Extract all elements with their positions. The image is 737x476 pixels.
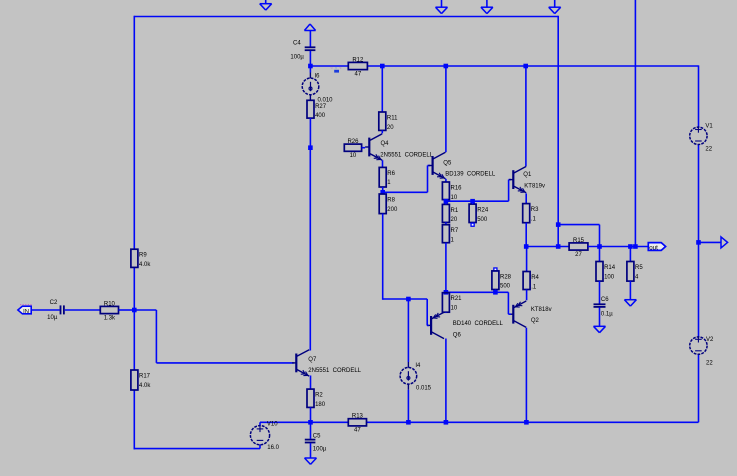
wire Q7 emitter stub [310, 376, 312, 390]
svg-text:R7: R7 [451, 228, 459, 234]
svg-text:out: out [649, 245, 658, 252]
node Q5 collector node [444, 64, 449, 69]
voltage source V10 16.0 [250, 421, 279, 451]
svg-text:R14: R14 [604, 265, 616, 271]
svg-text:R10: R10 [104, 301, 116, 307]
wire x558 drop [557, 16, 559, 247]
svg-text:2N5551 CORDELL: 2N5551 CORDELL [380, 153, 433, 159]
wire out line right [588, 246, 649, 248]
wire Q7 base wire [156, 362, 293, 364]
wire Q5 base wire [383, 191, 428, 193]
node R21 top node [444, 290, 449, 295]
wire x635 drop [634, 0, 636, 247]
wire R11 to Q4 collector [381, 130, 383, 133]
ground C5 [305, 458, 317, 464]
svg-text:10µ: 10µ [47, 315, 58, 321]
wire R26 to Q4 base [362, 147, 366, 149]
svg-text:4.0k: 4.0k [139, 383, 151, 389]
svg-text:R1: R1 [451, 208, 459, 214]
resistor R15 27 [569, 238, 588, 258]
wire lower rail right [367, 421, 699, 423]
svg-text:500: 500 [477, 217, 488, 223]
wire R6 to R8 [382, 187, 384, 194]
wire R17 to bottom corner [133, 390, 135, 449]
svg-text:0.010: 0.010 [318, 98, 334, 104]
wire node to I6 [309, 66, 311, 73]
resistor R24 500 [469, 204, 489, 223]
wire VCC to C4 [309, 31, 311, 47]
svg-text:0.1µ: 0.1µ [601, 311, 613, 317]
transistor Q2 [509, 301, 551, 327]
wire R1-R7 stub [445, 222, 447, 224]
svg-text:V10: V10 [267, 421, 278, 427]
wire C5 top stub [310, 422, 312, 439]
svg-text:22: 22 [705, 147, 712, 153]
wire R14 top stub [599, 247, 601, 262]
svg-text:R3: R3 [531, 207, 539, 213]
wire Q5 base lead [428, 165, 431, 167]
svg-text:Q4: Q4 [381, 141, 390, 147]
svg-text:R6: R6 [387, 171, 395, 177]
wire R21 top wire [446, 291, 496, 293]
wire R5 to ground [629, 281, 631, 300]
node R3/R4 out node [524, 244, 529, 249]
svg-text:500: 500 [500, 284, 511, 290]
node Q2 collector bottom node [524, 420, 529, 425]
wire C6 to ground [599, 308, 601, 327]
node x635 bottom node [633, 244, 638, 249]
wire C4 to node [309, 51, 311, 66]
wire out line left [526, 246, 569, 248]
svg-text:I6: I6 [315, 74, 321, 80]
svg-text:V2: V2 [706, 337, 714, 343]
probe marks near R12 [331, 66, 342, 73]
svg-text:BD140 CORDELL: BD140 CORDELL [453, 321, 504, 327]
wire bypass loop drop [599, 225, 601, 247]
svg-text:R15: R15 [573, 238, 585, 244]
svg-text:C6: C6 [601, 297, 609, 303]
resistor R27 400 [307, 100, 327, 119]
resistor R28 500 [492, 271, 512, 290]
wire rail y66 right [367, 65, 698, 67]
resistor R9 4.0k [131, 249, 151, 268]
node Q6 collector bottom node [444, 420, 449, 425]
wire R11 top stub [381, 66, 383, 112]
wire rail y66 left [310, 65, 348, 67]
svg-text:Q5: Q5 [443, 160, 452, 166]
wire R3 to out node [525, 223, 527, 247]
resistor R3 .1 [523, 204, 539, 223]
node I4 top node [406, 297, 411, 302]
node C4/I6/R12 node [308, 64, 313, 69]
svg-text:V1: V1 [705, 124, 713, 130]
svg-text:R11: R11 [387, 116, 398, 122]
ground C6 [594, 326, 606, 332]
wire left border to R17 [133, 310, 135, 370]
resistor R1 20 [442, 204, 458, 223]
resistor R7 1 [442, 225, 458, 244]
resistor R6 1 [379, 167, 395, 187]
svg-text:47: 47 [354, 428, 361, 434]
resistor R5 4 [627, 262, 643, 282]
node R28/Q2-base node [493, 290, 498, 295]
capacitor C2 10µ [47, 300, 64, 321]
capacitor C4 100µ [290, 40, 315, 60]
node V1-V2 mid node [696, 240, 701, 245]
wire Q2 collector riser [525, 328, 527, 423]
svg-text:Q1: Q1 [523, 172, 532, 178]
resistor R8 200 [379, 194, 398, 214]
port tag IN [18, 305, 32, 315]
svg-text:47: 47 [355, 71, 362, 77]
node input node [132, 308, 137, 313]
wire R16 node to Q1 base [446, 200, 509, 202]
node I4 bottom node [406, 420, 411, 425]
svg-text:R12: R12 [352, 57, 364, 63]
wire R7 down to R21 [445, 243, 447, 293]
wire R24 top stub [472, 201, 474, 204]
svg-text:R5: R5 [635, 265, 643, 271]
wire R10 to node [119, 309, 135, 311]
wire Q1 base lead [509, 179, 511, 181]
ground top 3 [481, 0, 493, 14]
wire R1 top stub [445, 201, 447, 204]
wire right riser V1-top [698, 65, 700, 127]
wire Q4 emitter stub [382, 160, 384, 167]
wire Q6 collector riser [445, 339, 447, 423]
I6 bottom lead [309, 95, 311, 101]
resistor R2 180 [307, 389, 326, 408]
wire I4 riser [407, 299, 409, 362]
svg-text:BD139 CORDELL: BD139 CORDELL [445, 171, 496, 177]
terminal pin R24 [470, 223, 474, 227]
svg-text:Q7: Q7 [308, 357, 317, 363]
port arrow right [721, 237, 728, 248]
node R14 top node [597, 244, 602, 249]
wire left border lower [133, 267, 135, 310]
svg-text:10: 10 [350, 153, 357, 159]
svg-text:C2: C2 [50, 300, 58, 306]
wire R8 corner to I4 node [383, 298, 409, 300]
wire left border [133, 16, 135, 250]
node R26 branch node [308, 145, 313, 150]
transistor Q5 [428, 152, 495, 178]
resistor R16 10 [442, 182, 462, 201]
svg-text:R9: R9 [139, 253, 147, 259]
wire Q6 base drop [426, 299, 428, 325]
svg-text:100µ: 100µ [290, 54, 304, 60]
svg-text:R4: R4 [531, 275, 539, 281]
wire R27 to Q7-collector node [309, 118, 311, 148]
svg-text:20: 20 [451, 217, 458, 223]
wire Q2 base drop [507, 292, 509, 314]
wire R5 top stub [629, 247, 631, 262]
ground top 2 [436, 0, 448, 14]
ground top 4 [549, 0, 561, 14]
svg-text:C4: C4 [293, 40, 301, 46]
wire port stub [699, 241, 722, 243]
svg-text:2N5551 CORDELL: 2N5551 CORDELL [308, 368, 361, 374]
node bypass loop top-left [556, 222, 561, 227]
svg-text:R26: R26 [347, 139, 359, 145]
wire Q1 collector riser [525, 66, 527, 166]
wire V10 top stub [259, 422, 261, 425]
svg-text:0.015: 0.015 [416, 386, 432, 392]
svg-text:10: 10 [451, 195, 458, 201]
node Q1 collector node [523, 64, 528, 69]
node R11 top node [380, 64, 385, 69]
wire Q2 base wire [495, 291, 508, 293]
node x558 out node [556, 244, 561, 249]
wire Q5 collector riser [445, 66, 447, 152]
resistor R21 10 [442, 293, 462, 313]
wire Q5 emitter stub [445, 179, 447, 182]
node R2/C5/V10 node [308, 420, 313, 425]
port tag out [648, 243, 665, 252]
svg-text:R16: R16 [451, 186, 463, 192]
wire IN to C2 [31, 309, 59, 311]
wire R4 top stub [526, 247, 528, 272]
node R24 top node [470, 199, 475, 204]
svg-text:27: 27 [575, 252, 582, 258]
I4 top lead [407, 362, 409, 368]
resistor R12 47 [348, 57, 367, 77]
svg-text:4.0k: 4.0k [139, 262, 151, 268]
wire right riser V1-V2 [698, 145, 700, 337]
svg-text:R28: R28 [500, 274, 512, 280]
wire Q6 base wire [408, 298, 427, 300]
svg-text:180: 180 [315, 402, 326, 408]
svg-text:20: 20 [387, 125, 394, 131]
ground R5 [624, 300, 636, 306]
I4 bottom lead [407, 384, 409, 390]
svg-text:1.3k: 1.3k [104, 315, 116, 321]
I6 top lead [309, 73, 311, 79]
resistor R11 20 [379, 112, 398, 131]
svg-text:.1: .1 [531, 216, 537, 222]
current source I6 0.010 [302, 74, 333, 104]
node R6/R8 node [380, 190, 385, 195]
current source I4 0.015 [400, 363, 432, 392]
wire R16 to node [445, 200, 447, 202]
voltage source V1 22 [690, 124, 714, 153]
resistor R10 1.3k [100, 301, 118, 321]
wire top rail [134, 16, 558, 18]
svg-text:R21: R21 [451, 296, 463, 302]
wire Q1 emitter stub [525, 193, 527, 203]
svg-text:100µ: 100µ [313, 447, 327, 453]
wire node to Q7 branch [134, 309, 156, 311]
wire bypass loop top [558, 224, 599, 226]
terminal pin R28 [493, 267, 497, 271]
capacitor C5 100µ [305, 433, 327, 452]
svg-text:IN: IN [23, 309, 29, 315]
resistor R4 .1 [523, 272, 539, 291]
ground top 1 [260, 0, 272, 10]
svg-text:22: 22 [706, 360, 713, 366]
resistor R17 4.0k [131, 370, 151, 390]
wire R28 bottom stub [494, 290, 496, 293]
wire I4 bottom stub [407, 390, 409, 423]
node R16/R1 node [444, 199, 449, 204]
svg-text:Q2: Q2 [531, 318, 540, 324]
wire bottom-left rail [134, 448, 261, 450]
transistor Q4 [365, 134, 434, 160]
svg-text:16.0: 16.0 [267, 445, 279, 451]
transistor Q1 [509, 166, 545, 192]
node R5 top node [628, 244, 633, 249]
svg-text:R27: R27 [315, 104, 327, 110]
svg-text:400: 400 [315, 113, 326, 119]
wire R8 down long [382, 214, 384, 300]
wire C2 to R10 [65, 309, 101, 311]
wire R14 to C6 [599, 281, 601, 303]
svg-text:200: 200 [387, 207, 398, 213]
wire Q6 base lead [427, 324, 429, 326]
transistor Q6 [427, 312, 504, 338]
wire right riser V2-bottom [698, 355, 700, 423]
svg-text:R2: R2 [315, 393, 323, 399]
wire Q7 collector riser [309, 148, 311, 351]
capacitor C6 0.1µ [594, 297, 614, 317]
svg-text:KT819v: KT819v [524, 184, 545, 190]
svg-text:Q6: Q6 [453, 333, 462, 339]
wire Q5 base riser [427, 166, 429, 193]
svg-text:.1: .1 [531, 284, 537, 290]
transistor Q7 [292, 350, 362, 376]
wire R2 bottom stub [310, 407, 312, 422]
wire V10 bottom stub [259, 445, 261, 449]
wire Q7 branch drop [155, 310, 157, 363]
wire R4 to Q2 emitter [526, 290, 528, 301]
wire lower rail left [260, 421, 348, 423]
power arrow up [304, 24, 315, 31]
voltage source V2 22 [690, 336, 714, 366]
svg-text:KT818v: KT818v [531, 307, 552, 313]
wire Q1 base riser [508, 180, 510, 202]
resistor R13 47 [348, 414, 366, 434]
svg-text:10: 10 [451, 306, 458, 312]
wire R21 to Q6 emitter [445, 311, 447, 314]
resistor R14 100 [596, 262, 616, 282]
svg-text:100: 100 [604, 274, 615, 280]
svg-text:R17: R17 [139, 374, 151, 380]
svg-text:C5: C5 [313, 433, 321, 439]
wire C5 to ground [310, 443, 312, 458]
svg-text:R24: R24 [477, 208, 489, 214]
svg-text:R13: R13 [352, 414, 364, 420]
wire Q2 base lead [508, 313, 511, 315]
resistor R26 10 [344, 139, 361, 159]
svg-text:I4: I4 [415, 363, 421, 369]
svg-text:R8: R8 [387, 198, 395, 204]
